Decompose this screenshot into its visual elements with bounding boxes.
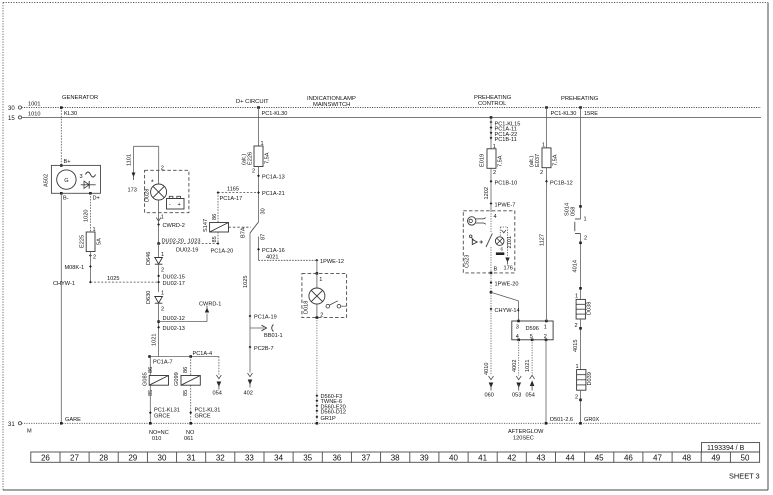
- svg-text:D596: D596: [526, 326, 539, 332]
- lamp module D018 dashed box: [302, 273, 347, 317]
- svg-text:31: 31: [187, 453, 196, 462]
- svg-text:S147: S147: [203, 219, 209, 232]
- C523 buzzer symbol: [469, 235, 483, 245]
- pin B+: [60, 159, 71, 167]
- C523 key symbol: [468, 217, 486, 225]
- wire 1PWE-12 to D018: [316, 260, 319, 274]
- C523 lamp: [495, 237, 504, 252]
- wire 1165 horizontal: [218, 187, 259, 193]
- svg-text:B7A: B7A: [241, 227, 247, 238]
- node PC1A-7: [148, 355, 172, 365]
- bus 30 (KL30): [22, 107, 761, 109]
- svg-text:173: 173: [128, 188, 137, 194]
- svg-text:1001: 1001: [28, 102, 40, 108]
- svg-text:176: 176: [504, 265, 513, 271]
- fuse E226: [254, 146, 263, 167]
- fuse E225: [86, 232, 95, 252]
- svg-text:B-: B-: [63, 196, 69, 202]
- svg-text:GARE: GARE: [65, 417, 81, 423]
- svg-text:PC1-KL30: PC1-KL30: [551, 111, 577, 117]
- bus 15: [22, 116, 761, 118]
- svg-text:402: 402: [244, 391, 253, 397]
- svg-text:1PWE-12: 1PWE-12: [320, 259, 344, 265]
- terminator arrow 173: [128, 173, 137, 194]
- D018 pin 1: [319, 277, 322, 283]
- svg-text:061: 061: [184, 436, 193, 442]
- relay S147 pin 86: [212, 214, 218, 220]
- node PC1A-21: [257, 191, 285, 197]
- svg-text:DU02-15: DU02-15: [163, 274, 185, 280]
- svg-text:1PWE-7: 1PWE-7: [495, 203, 516, 209]
- D596 pin 5: [530, 334, 534, 341]
- C523 label 2101: [507, 236, 513, 248]
- D596 pin 3: [516, 320, 520, 331]
- svg-text:2: 2: [575, 323, 578, 329]
- contact pin 87: [261, 234, 267, 240]
- svg-text:CHYW-1: CHYW-1: [53, 281, 75, 287]
- header GENERATOR: [62, 95, 98, 101]
- svg-text:E226: E226: [248, 152, 254, 165]
- terminator 060: [485, 376, 494, 399]
- wire bus to fuse E037: [542, 108, 547, 149]
- svg-text:44: 44: [566, 453, 575, 462]
- wire C523 to 060: [490, 273, 492, 376]
- svg-text:30: 30: [158, 453, 167, 462]
- frame left: [2, 3, 4, 491]
- resistor D038: [576, 299, 585, 319]
- wire B+ riser from bus 30 to generator: [60, 106, 63, 165]
- svg-text:39: 39: [420, 453, 429, 462]
- switch S014 pin 1: [584, 217, 587, 223]
- wire to relay G085: [149, 357, 151, 376]
- svg-text:SHEET 3: SHEET 3: [729, 472, 760, 481]
- node PC1A-20: [211, 242, 234, 254]
- svg-text:060: 060: [485, 393, 494, 399]
- svg-text:7,5A: 7,5A: [553, 154, 559, 166]
- svg-text:30: 30: [261, 208, 267, 214]
- label NO=NC 010: [149, 430, 169, 442]
- svg-text:1193394 / B: 1193394 / B: [707, 445, 745, 452]
- contact pin 30: [261, 208, 267, 214]
- node 1PWE-12: [315, 259, 343, 265]
- node PC1A-11: [490, 126, 517, 132]
- svg-text:36: 36: [332, 453, 341, 462]
- svg-text:1202: 1202: [484, 187, 490, 199]
- node PC1A-19: [249, 315, 277, 321]
- svg-text:2: 2: [320, 313, 323, 319]
- node PC1A-22: [490, 131, 518, 137]
- svg-text:15: 15: [8, 116, 15, 122]
- resistor D039: [577, 370, 586, 391]
- node DU02-15: [157, 274, 185, 280]
- svg-text:86: 86: [148, 367, 154, 373]
- svg-text:1PWE-20: 1PWE-20: [495, 282, 519, 288]
- svg-text:054: 054: [526, 393, 535, 399]
- wire D039 to bus 31 (GR0X): [579, 390, 582, 424]
- svg-text:37: 37: [362, 453, 371, 462]
- svg-text:BB01-1: BB01-1: [264, 333, 283, 339]
- svg-text:PC2B-7: PC2B-7: [254, 346, 274, 352]
- svg-text:85: 85: [183, 390, 189, 396]
- node 1PWE-7: [490, 202, 516, 208]
- switch S014 pin 2: [584, 236, 587, 242]
- svg-text:47: 47: [653, 453, 662, 462]
- svg-text:PC1A-19: PC1A-19: [254, 315, 277, 321]
- svg-text:4002: 4002: [512, 360, 518, 372]
- svg-text:1: 1: [544, 324, 547, 330]
- svg-text:2: 2: [252, 169, 255, 175]
- svg-text:PC1B-10: PC1B-10: [495, 180, 518, 186]
- wire 1101 with terminator 173: [127, 146, 159, 172]
- wire PC1A-17 to relay S147 coil: [217, 193, 219, 223]
- wire G085 to bus 31: [149, 385, 152, 424]
- D596 pin 1: [544, 320, 548, 331]
- svg-text:KL30: KL30: [64, 111, 77, 117]
- svg-text:3: 3: [516, 324, 519, 330]
- C523 arrow 176: [504, 258, 513, 272]
- resistor D039 pin 1: [576, 364, 579, 370]
- svg-text:A502: A502: [44, 174, 50, 187]
- node D560-E20: [315, 404, 345, 410]
- node CHYW-14: [490, 307, 520, 314]
- svg-text:DU02-17: DU02-17: [163, 281, 185, 287]
- header D+ CIRCUIT: [236, 99, 269, 105]
- svg-text:PC1A-16: PC1A-16: [262, 248, 285, 254]
- svg-text:1025: 1025: [107, 276, 119, 282]
- svg-text:PC1A-7: PC1A-7: [153, 360, 173, 366]
- svg-text:+: +: [178, 202, 181, 208]
- generator sine symbol: [86, 172, 96, 177]
- generator A502 box: [51, 165, 100, 193]
- svg-text:1127: 1127: [540, 234, 546, 246]
- wire 15RE down to switch S014: [579, 108, 582, 220]
- svg-text:2: 2: [493, 170, 496, 176]
- wire 87 to corner: [258, 237, 260, 261]
- svg-text:50: 50: [741, 453, 750, 462]
- wire 1202 label: [484, 187, 490, 199]
- svg-text:2: 2: [540, 170, 543, 176]
- svg-text:-: -: [169, 202, 171, 208]
- svg-text:010: 010: [152, 436, 161, 442]
- D028 designator: [145, 189, 151, 202]
- wire 1023 to PC1A-20: [159, 239, 218, 254]
- D028 battery symbol: [167, 196, 185, 209]
- node DU02-17: [157, 281, 185, 287]
- svg-text:1165: 1165: [227, 187, 239, 193]
- node 31 terminal: [8, 422, 32, 435]
- terminator 402: [244, 373, 253, 397]
- svg-text:AFTERGLOW: AFTERGLOW: [508, 429, 544, 435]
- resistor D038 designator: [587, 302, 593, 315]
- svg-text:B: B: [494, 266, 498, 272]
- wire 4010 label: [484, 363, 490, 375]
- svg-text:120SEC: 120SEC: [513, 435, 534, 441]
- node C523 bottom junction: [490, 272, 493, 275]
- relay G099 designator: [174, 372, 180, 386]
- lamp module D028 dashed box: [145, 170, 189, 212]
- wire S147 to PC1A-20: [217, 232, 219, 244]
- svg-text:32: 32: [216, 453, 225, 462]
- svg-text:5A: 5A: [97, 238, 103, 245]
- svg-text:D+ CIRCUIT: D+ CIRCUIT: [236, 99, 269, 105]
- fuse E226 designator: [242, 152, 254, 165]
- svg-text:GRCE: GRCE: [154, 414, 170, 420]
- node PC1A-16: [257, 248, 285, 254]
- svg-text:1023: 1023: [188, 239, 200, 245]
- ruler scale 26-50: [31, 452, 760, 462]
- pin D+: [89, 192, 100, 202]
- svg-text:85: 85: [212, 236, 218, 242]
- wire D018 to bus 31: [316, 318, 319, 425]
- svg-text:D039: D039: [587, 372, 593, 385]
- wire 1021 pin5 drop: [525, 340, 532, 376]
- svg-text:D+: D+: [93, 196, 100, 202]
- svg-text:D630: D630: [146, 291, 152, 304]
- label NO 061: [184, 430, 195, 442]
- node D560-D12: [315, 409, 346, 415]
- svg-text:PC1A-4: PC1A-4: [193, 351, 213, 357]
- wire 1001 label: [28, 102, 40, 108]
- D596 pin 4: [516, 334, 520, 341]
- node PC1A-13: [257, 174, 285, 180]
- title block 1193394 / B: [702, 443, 760, 452]
- svg-text:CWRD-1: CWRD-1: [199, 302, 221, 308]
- wire 4014: [573, 234, 582, 300]
- wire 4002 pin4 drop: [512, 340, 519, 376]
- fuse E019 designator: [480, 154, 486, 167]
- generator phase count 3: [80, 174, 83, 180]
- relay coil S147: [210, 223, 229, 233]
- svg-text:27: 27: [70, 453, 79, 462]
- svg-text:45: 45: [595, 453, 604, 462]
- wire 1127 label: [540, 234, 546, 246]
- wire PC1A-7 / PC1A-4 horizontal: [150, 356, 219, 358]
- relay S147 pin 85: [212, 236, 218, 242]
- svg-text:1025: 1025: [243, 276, 249, 288]
- relay G085 designator: [143, 372, 149, 386]
- svg-text:PC1B-12: PC1B-12: [550, 180, 573, 186]
- fuse E225 pin 2: [89, 254, 96, 260]
- terminator CWRD-1 (arrow up): [199, 302, 221, 313]
- C523 pin 4: [494, 214, 497, 220]
- relay S147 designator: [203, 219, 209, 232]
- svg-text:DU02-13: DU02-13: [163, 326, 185, 332]
- node TWNE-6: [315, 399, 341, 405]
- node PC1B-11: [490, 136, 517, 143]
- generator A502 designator: [44, 174, 50, 187]
- svg-text:E037: E037: [535, 154, 541, 167]
- svg-text:1: 1: [575, 294, 578, 300]
- svg-text:PC1A-17: PC1A-17: [220, 196, 243, 202]
- svg-text:30: 30: [8, 106, 15, 112]
- wire to relay G099: [190, 357, 192, 376]
- wire D596 pin2 to bus 31: [545, 340, 548, 425]
- svg-text:CHYW-14: CHYW-14: [495, 308, 520, 314]
- svg-text:GR0X: GR0X: [584, 417, 600, 423]
- svg-text:1: 1: [161, 215, 164, 221]
- svg-text:40: 40: [449, 453, 458, 462]
- node 15 terminal: [8, 116, 22, 122]
- terminator 054 (left): [213, 375, 222, 397]
- bus 31 (ground bus): [22, 422, 761, 424]
- connector BB01-1: [250, 325, 283, 339]
- node PC1-KL15 tap: [490, 116, 521, 127]
- svg-text:4014: 4014: [573, 260, 579, 272]
- pin B-: [60, 192, 69, 202]
- svg-text:86: 86: [212, 214, 218, 220]
- svg-text:2: 2: [161, 268, 164, 274]
- svg-text:38: 38: [391, 453, 400, 462]
- svg-text:M: M: [27, 429, 32, 435]
- relay G099 pin 85: [183, 390, 189, 396]
- svg-text:4: 4: [494, 214, 497, 220]
- node PC1-KL31 GRCE (G099): [189, 408, 220, 420]
- node GR0X: [584, 417, 600, 423]
- node D560-F3: [315, 394, 342, 400]
- wire 1025 horizontal to DU02-17: [90, 276, 158, 282]
- generator diode symbol: [81, 181, 96, 189]
- fuse E019 pin 2: [491, 168, 496, 211]
- svg-text:46: 46: [624, 453, 633, 462]
- fuse E226 pin 2: [252, 167, 259, 223]
- contact blade (mainswitch): [250, 222, 259, 233]
- svg-text:48: 48: [682, 453, 691, 462]
- svg-text:D646: D646: [146, 252, 152, 265]
- svg-text:054: 054: [213, 391, 222, 397]
- svg-text:D560-D12: D560-D12: [321, 409, 347, 415]
- resistor D038 pin 1: [575, 294, 578, 300]
- C523 resistor bar: [496, 252, 504, 255]
- fuse E225 pin 1: [93, 227, 96, 233]
- wire 1010 label: [28, 112, 40, 118]
- svg-text:7,5A: 7,5A: [498, 155, 504, 167]
- relay G085 pin 86: [148, 367, 154, 373]
- fuse E225 designator: [80, 235, 86, 248]
- D596 pin 2: [544, 334, 548, 341]
- svg-text:35: 35: [303, 453, 312, 462]
- diode D630: [146, 291, 164, 357]
- relay coil G085: [149, 376, 168, 386]
- wire G099 to bus 31: [189, 385, 192, 424]
- svg-text:4015: 4015: [573, 340, 579, 352]
- svg-text:DU02-19: DU02-19: [176, 248, 198, 254]
- D018 switch: [326, 301, 347, 308]
- svg-text:G099: G099: [174, 372, 180, 386]
- svg-text:4021: 4021: [266, 254, 278, 260]
- node 30 terminal: [8, 106, 22, 112]
- switch S014 designator: [565, 203, 577, 216]
- svg-text:B+: B+: [64, 159, 71, 165]
- wire E225 to CHYW-1: [89, 252, 91, 283]
- generator G circle: [57, 170, 76, 189]
- wire bus to fuse E226: [259, 108, 264, 148]
- svg-text:PC1A-13: PC1A-13: [262, 174, 285, 180]
- terminator 053: [512, 376, 521, 399]
- node PC1B-10: [490, 180, 518, 186]
- svg-text:M08K-1: M08K-1: [65, 265, 85, 271]
- wire GARE from B- to bus 31: [60, 193, 62, 423]
- fuse E019: [487, 149, 496, 169]
- C523 designator: [465, 255, 471, 268]
- svg-text:PC1A-20: PC1A-20: [211, 249, 234, 255]
- svg-text:PREHEATING: PREHEATING: [561, 96, 599, 102]
- net label KL30: [64, 111, 77, 117]
- frame right: [767, 3, 769, 491]
- frame top: [3, 2, 768, 4]
- switch S014 contacts: [575, 219, 581, 234]
- svg-text:CWRD-2: CWRD-2: [163, 223, 185, 229]
- wire B7A label: [241, 227, 247, 238]
- svg-text:1: 1: [584, 217, 587, 223]
- relay S147 actuating link (dashed): [229, 226, 252, 228]
- node DU02-20 junction: [157, 239, 184, 245]
- svg-text:1010: 1010: [28, 112, 40, 118]
- svg-text:PC1-KL30: PC1-KL30: [262, 111, 288, 117]
- D018 lamp: [309, 273, 325, 317]
- fuse E019 pin 1: [493, 144, 496, 150]
- node DU02-13: [157, 326, 185, 332]
- fuse E037: [542, 148, 551, 168]
- svg-text:2: 2: [161, 307, 164, 313]
- wire B7A / 1025 down: [243, 233, 250, 373]
- node CHYW-1: [53, 281, 92, 287]
- node DU02-12: [157, 316, 185, 323]
- header PREHEATING: [561, 96, 599, 102]
- label AFTERGLOW 120SEC: [508, 429, 544, 441]
- wire 4015: [573, 319, 582, 370]
- node 1PWE-20: [490, 281, 519, 287]
- svg-text:2: 2: [575, 395, 578, 401]
- D018 pin 2: [316, 313, 324, 319]
- svg-text:87: 87: [261, 234, 267, 240]
- svg-text:15RE: 15RE: [584, 111, 598, 117]
- fuse E225 value 5A: [97, 238, 103, 245]
- svg-text:31: 31: [8, 422, 15, 428]
- svg-text:D018: D018: [304, 301, 310, 314]
- relay coil G099: [181, 376, 200, 386]
- svg-text:1021: 1021: [152, 334, 158, 346]
- node PC1-KL31 GRCE (G085): [149, 408, 180, 420]
- relay G099 pin 86: [183, 367, 189, 373]
- svg-text:DU02-12: DU02-12: [163, 316, 185, 322]
- svg-text:49: 49: [711, 453, 720, 462]
- svg-text:D501-2.6: D501-2.6: [550, 417, 573, 423]
- svg-text:G: G: [64, 178, 68, 184]
- svg-text:26: 26: [41, 453, 50, 462]
- node PC1-KL30 tap (preheating): [545, 106, 576, 117]
- relay G085 pin 85: [148, 390, 154, 396]
- svg-text:PC1B-11: PC1B-11: [495, 137, 517, 143]
- wire 15 bus to fuse E019: [490, 117, 492, 148]
- svg-text:D028: D028: [145, 189, 151, 202]
- svg-text:3: 3: [80, 174, 83, 180]
- node PC2B-7: [249, 346, 274, 352]
- sheet label: [729, 472, 760, 481]
- svg-text:34: 34: [274, 453, 283, 462]
- C523 indicator lamp loop: [500, 227, 507, 257]
- svg-text:1021: 1021: [525, 360, 531, 372]
- svg-text:29: 29: [128, 453, 137, 462]
- svg-text:1020: 1020: [84, 210, 90, 222]
- D018 designator: [304, 301, 310, 314]
- diode D646: [146, 244, 164, 293]
- header INDICATIONLAMP MAINSWITCH: [307, 96, 356, 108]
- control unit D596: [512, 321, 553, 340]
- node PC1-KL30 tap (D+ circuit): [257, 106, 287, 117]
- C523 pin B: [494, 266, 498, 272]
- fuse E226 value: [265, 152, 271, 164]
- wire 4021: [259, 254, 317, 260]
